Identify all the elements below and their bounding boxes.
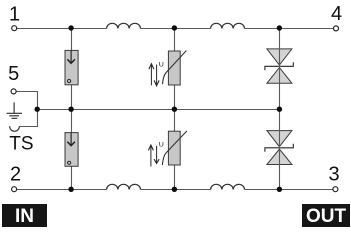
wire left column	[71, 29, 73, 190]
junction top right	[277, 25, 282, 30]
junction bottom left	[68, 187, 73, 192]
varistor RV2 voltage arrows U	[148, 141, 164, 166]
wire terminal 5 to middle rail	[16, 92, 37, 110]
varistor RV1 voltage arrows U	[149, 61, 164, 86]
shield contact arc TS	[10, 126, 20, 131]
wire varistor column	[174, 29, 176, 190]
varistor RV2	[162, 131, 187, 165]
disconnector F2	[65, 133, 78, 167]
terminal 2	[12, 187, 17, 192]
wire bottom rail	[17, 189, 333, 191]
varistor RV1	[163, 51, 187, 85]
disconnector F1	[65, 50, 78, 84]
svg-text:TS: TS	[9, 133, 33, 154]
wire top rail	[17, 28, 334, 30]
terminal 4	[334, 26, 339, 31]
junction mid middle	[172, 107, 177, 112]
junction top middle	[172, 25, 177, 30]
inductor L2	[211, 23, 245, 28]
junction bottom middle	[172, 187, 177, 192]
wire middle rail	[38, 109, 280, 111]
terminal 5	[11, 89, 16, 94]
wire TS to middle rail	[19, 110, 37, 127]
svg-text:U: U	[159, 61, 164, 68]
svg-text:5: 5	[8, 63, 19, 85]
junction mid left	[68, 107, 73, 112]
svg-text:2: 2	[10, 163, 21, 185]
junction top left	[68, 25, 73, 30]
ground	[7, 102, 22, 118]
svg-text:4: 4	[331, 3, 342, 25]
IN box	[2, 204, 47, 227]
junction bottom right	[277, 187, 282, 192]
svg-text:IN: IN	[15, 206, 34, 227]
svg-text:3: 3	[328, 163, 339, 185]
suppressor diode D2	[265, 131, 293, 165]
inductor L3	[107, 184, 141, 189]
inductor L1	[107, 23, 141, 28]
terminal 3	[333, 187, 338, 192]
inductor L4	[211, 184, 245, 189]
OUT box	[302, 204, 350, 227]
suppressor diode D1	[265, 49, 293, 83]
terminal 1	[12, 26, 17, 31]
svg-text:U: U	[159, 141, 164, 148]
svg-text:1: 1	[9, 3, 20, 25]
svg-text:OUT: OUT	[306, 206, 347, 227]
junction mid right	[277, 107, 282, 112]
junction mid far-left	[35, 107, 40, 112]
wire diode column	[279, 29, 281, 190]
